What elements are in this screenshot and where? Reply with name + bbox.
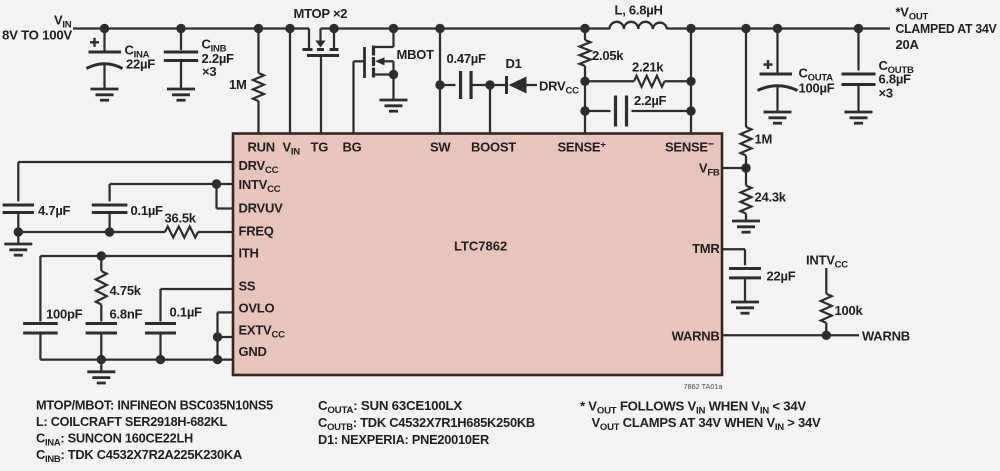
node junction 1M-rail: [741, 24, 750, 33]
wire OVLO pin: [218, 311, 234, 313]
wire BOOST pin: [489, 85, 491, 134]
svg-text:LTC7862: LTC7862: [454, 239, 507, 254]
wire TG pin: [320, 56, 322, 135]
capacitor CINB 2.2uF x3: [180, 29, 182, 51]
resistor R2 2.21k: [585, 80, 634, 82]
resistor R5 100k: [825, 268, 827, 294]
wire VOUT rail: [667, 27, 891, 29]
node junction SW-boost branch: [435, 80, 444, 89]
capacitor C-DRVCC 4.7uF: [3, 203, 34, 206]
ground under 24.3k: [732, 220, 760, 223]
svg-text:×3: ×3: [202, 64, 216, 79]
wire TMR pin: [722, 248, 745, 250]
svg-text:SW: SW: [430, 140, 451, 155]
node junction 0.1uF-freq wire: [105, 227, 114, 236]
wire WARNB: [722, 334, 859, 336]
svg-text:36.5k: 36.5k: [165, 211, 197, 226]
node junction ITH-4.75k: [97, 251, 106, 260]
wire BG pin: [352, 61, 354, 134]
svg-text:BOOST: BOOST: [471, 140, 516, 155]
wire INTVCC pin left: [110, 183, 233, 185]
svg-text:24.3k: 24.3k: [755, 190, 787, 205]
node junction GND-0.1uF: [156, 355, 165, 364]
svg-text:6.8nF: 6.8nF: [110, 307, 143, 322]
svg-text:6.8µF: 6.8µF: [879, 72, 912, 87]
wire VIN pin: [289, 29, 291, 135]
resistor R1 2.05k: [584, 29, 586, 41]
node junction 1M-rail: [254, 24, 263, 33]
wire GND rail left: [40, 358, 233, 360]
capacitor C-TMR 22uF: [729, 267, 761, 270]
ground under MBOT: [380, 99, 408, 102]
capacitor CB 0.47uF boost: [440, 84, 456, 86]
wire ITH pin: [40, 255, 233, 257]
node junction COUTA-rail: [773, 24, 782, 33]
svg-text:BG: BG: [343, 140, 362, 155]
node junction COUTB-rail: [854, 24, 863, 33]
svg-text:ITH: ITH: [239, 246, 259, 261]
svg-text:CLAMPED AT 34V: CLAMPED AT 34V: [896, 21, 998, 36]
svg-text:100k: 100k: [835, 303, 864, 318]
node junction GND-6.8nF: [97, 355, 106, 364]
svg-text:D1: D1: [506, 56, 522, 71]
svg-text:8V TO 100V: 8V TO 100V: [2, 28, 73, 43]
svg-text:22µF: 22µF: [767, 269, 796, 284]
svg-text:WARNB: WARNB: [862, 329, 910, 344]
node junction GND-OVLO: [213, 355, 222, 364]
svg-text:MBOT: MBOT: [397, 47, 435, 62]
ground under 22uF: [731, 301, 759, 304]
svg-text:D1: NEXPERIA: PNE20010ER: D1: NEXPERIA: PNE20010ER: [318, 432, 490, 447]
node junction SW-rail: [435, 24, 444, 33]
wire SW rail: [321, 27, 611, 29]
node junction VFB: [741, 163, 750, 172]
svg-text:OVLO: OVLO: [239, 301, 275, 316]
capacitor C-ITH2 100pF: [39, 256, 41, 322]
wire SENSE- pin: [690, 29, 692, 135]
resistor R6 4.75k: [100, 256, 102, 271]
svg-text:WARNB: WARNB: [672, 329, 720, 344]
svg-text:L, 6.8µH: L, 6.8µH: [615, 3, 663, 18]
svg-text:1M: 1M: [755, 132, 773, 147]
wire DRVCC pin left: [18, 161, 233, 163]
capacitor C-ITH 6.8nF: [86, 322, 117, 325]
wire SW pin: [439, 29, 441, 135]
op-amp U1 LTC7862 IC body: [233, 134, 722, 376]
svg-text:2.21k: 2.21k: [632, 60, 664, 75]
svg-text:0.1µF: 0.1µF: [170, 305, 203, 320]
svg-text:MTOP/MBOT: INFINEON BSC035N10N: MTOP/MBOT: INFINEON BSC035N10NS5: [36, 398, 273, 413]
node junction WARNB: [822, 331, 831, 340]
node junction EXTVCC-OVLO: [213, 332, 222, 341]
svg-text:2.05k: 2.05k: [592, 48, 624, 63]
ground under CINB: [167, 88, 195, 91]
node junction SENSE+ top: [580, 77, 589, 86]
svg-text:SENSE+: SENSE+: [558, 140, 607, 155]
wire FREQ pin with resistor 36.5k: [18, 231, 165, 233]
svg-text:2.2µF: 2.2µF: [634, 93, 667, 108]
ground under left network: [100, 360, 102, 371]
node junction MTOP-source-rail: [329, 24, 338, 33]
wire VIN rail: [73, 27, 309, 29]
svg-text:100µF: 100µF: [799, 81, 835, 96]
wire SS pin: [161, 288, 234, 290]
svg-text:SENSE−: SENSE−: [665, 139, 714, 155]
wire SENSE+ pin: [584, 81, 586, 134]
wire EXTVCC pin: [218, 336, 234, 338]
ground under COUTA: [764, 111, 792, 114]
node junction SENSE- rail: [686, 24, 695, 33]
wire DRVUV jog: [215, 184, 217, 209]
node junction 2.21k-right: [686, 77, 695, 86]
svg-text:SS: SS: [239, 279, 256, 294]
svg-text:×3: ×3: [879, 86, 893, 101]
capacitor CINA 22uF polarized: [103, 29, 105, 52]
node junction CINA-rail: [100, 24, 109, 33]
ground under 4.7uF: [17, 232, 19, 244]
svg-text:0.1µF: 0.1µF: [131, 203, 164, 218]
svg-text:DRVUV: DRVUV: [239, 201, 284, 216]
node junction BOOST: [485, 80, 494, 89]
node junction 4.7uF-gnd: [14, 227, 23, 236]
resistor R4 24.3k: [745, 168, 747, 186]
svg-text:100pF: 100pF: [46, 307, 83, 322]
svg-text:MTOP ×2: MTOP ×2: [294, 6, 348, 21]
capacitor C-SS 0.1uF: [145, 322, 176, 325]
svg-text:TMR: TMR: [692, 241, 720, 256]
ground under CINA: [91, 88, 119, 91]
capacitor C-INTVCC 0.1uF: [108, 184, 110, 202]
node junction MBOT-drain-rail: [389, 24, 398, 33]
resistor R-RUN 1M: [257, 29, 259, 74]
inductor L 6.8uH: [610, 22, 668, 29]
svg-text:L: COILCRAFT SER2918H-682KL: L: COILCRAFT SER2918H-682KL: [36, 414, 227, 429]
wire VFB pin: [722, 167, 746, 169]
svg-text:0.47µF: 0.47µF: [447, 51, 487, 66]
svg-text:FREQ: FREQ: [239, 224, 274, 239]
node junction 2.05k-rail: [580, 24, 589, 33]
node junction 2.2uF-right: [686, 106, 695, 115]
svg-text:1M: 1M: [229, 77, 247, 92]
node junction MBOT-source: [389, 70, 398, 79]
svg-text:7862 TA01a: 7862 TA01a: [684, 382, 724, 391]
capacitor COUTB 6.8uF x3: [857, 29, 859, 71]
node junction VINpin-rail: [285, 24, 294, 33]
node junction CINB-rail: [176, 24, 185, 33]
node junction INTVCC-DRVUV: [212, 179, 221, 188]
node junction SENSE+ cap: [580, 106, 589, 115]
svg-text:TG: TG: [311, 140, 329, 155]
svg-text:22µF: 22µF: [126, 57, 155, 72]
svg-text:4.7µF: 4.7µF: [38, 203, 71, 218]
svg-text:4.75k: 4.75k: [110, 283, 142, 298]
resistor R3 1M feedback top: [745, 29, 747, 128]
capacitor COUTA 100uF polarized: [776, 29, 778, 74]
svg-text:GND: GND: [239, 344, 267, 359]
capacitor C-SENSE 2.2uF: [585, 110, 611, 112]
svg-text:20A: 20A: [896, 37, 920, 52]
ground under COUTB: [845, 111, 873, 114]
svg-text:RUN: RUN: [248, 140, 275, 155]
